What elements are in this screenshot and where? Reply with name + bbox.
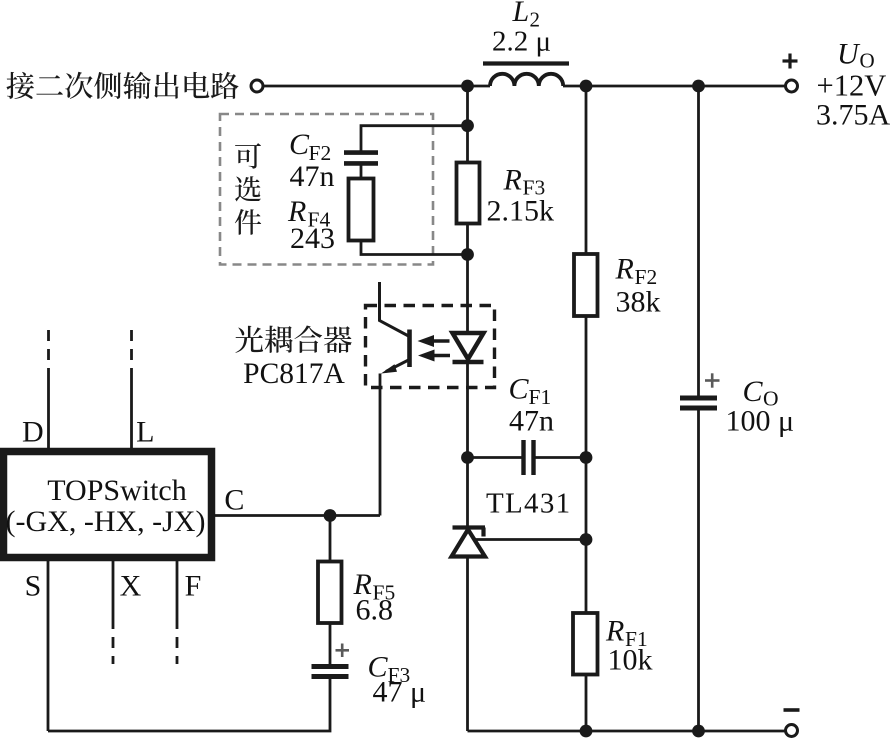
svg-text:2.2 μ: 2.2 μ <box>492 26 551 58</box>
label: 可 (optional box) <box>235 143 261 169</box>
pin L wire (dashed stub) <box>130 330 133 373</box>
svg-text:R: R <box>615 253 634 286</box>
svg-text:PC817A: PC817A <box>243 358 345 390</box>
regulator U2 TL431: triangle (pointing up) <box>452 530 486 557</box>
svg-text:243: 243 <box>290 222 335 255</box>
pin D wire (dashed stub) <box>47 330 50 373</box>
svg-text:3.75A: 3.75A <box>816 99 891 132</box>
node: junction CF1 / feedback column <box>461 451 474 464</box>
node: junction C pin / RF5 <box>324 509 337 522</box>
svg-text:2.15k: 2.15k <box>487 195 555 228</box>
wire: CF2 bottom plate to RF4 <box>360 165 363 179</box>
optocoupler U1 PC817A: dashed box <box>366 306 495 388</box>
terminal: secondary-side output (left, open circle) <box>251 80 263 92</box>
svg-text:100 μ: 100 μ <box>726 405 795 438</box>
wire: CO column, top rail down to CO <box>697 86 700 398</box>
label: minus sign <box>784 708 800 712</box>
wire: top rail from inductor to + terminal <box>563 85 785 88</box>
resistor RF4 (body) <box>349 179 374 241</box>
wire: LED cathode down to CF1 node <box>466 362 469 458</box>
wire: top rail from left terminal to inductor <box>264 85 490 88</box>
pin S wire down to bottom-left rail <box>47 561 50 731</box>
inductor L2 bar (line above coil) <box>483 61 569 65</box>
pin F wire (solid) <box>176 561 179 618</box>
node: junction top rail / RF2 column <box>580 80 593 93</box>
capacitor CO polarity + (gray) <box>705 373 720 387</box>
wire: CF2 top wire to feedback column <box>361 126 468 151</box>
optocoupler light arrow 2 <box>433 354 450 357</box>
resistor RF1 (body) <box>573 613 598 675</box>
pin D wire (solid) <box>47 373 50 448</box>
node: junction CF1 / RF2 column <box>580 451 593 464</box>
node: junction bottom rail / RF1 <box>580 725 593 738</box>
label: + polarity top right <box>783 54 798 69</box>
regulator U2 TL431: cathode bar <box>453 525 486 529</box>
capacitor CF1: left plate <box>521 440 525 475</box>
wire: bottom rail (TL431 anode to - terminal) <box>468 730 785 733</box>
optional-parts dashed box (gray) <box>220 114 433 265</box>
capacitor CF3: bottom plate <box>312 674 349 679</box>
wire: RF3 bottom to LED anode <box>466 224 469 335</box>
node: junction bottom rail / CO <box>692 725 705 738</box>
wire: RF5 bottom to CF3 <box>329 623 332 667</box>
svg-text:38k: 38k <box>616 286 661 319</box>
wire: TL431 reference to RF2/RF1 node <box>473 538 586 541</box>
wire: CF1 row right segment <box>535 456 586 459</box>
wire: CO bottom to bottom rail <box>697 408 700 731</box>
label: 选 (optional box) <box>235 176 261 201</box>
wire: RF1 bottom to bottom rail <box>585 675 588 732</box>
svg-text:C: C <box>743 375 764 408</box>
resistor RF5 (body) <box>318 562 342 624</box>
node: junction top rail / feedback column <box>461 80 474 93</box>
optocoupler phototransistor Q1: collector stub wire (free end above box) <box>380 282 409 336</box>
wire: RF4 bottom to feedback column <box>361 241 468 255</box>
optocoupler phototransistor Q1: emitter with arrowhead <box>386 360 409 372</box>
svg-text:TL431: TL431 <box>486 488 571 520</box>
node: junction CF2 top wire / feedback column <box>461 119 474 132</box>
capacitor CO: top plate (+) <box>680 396 717 401</box>
node: junction top rail / CO column <box>692 80 705 93</box>
resistor RF3 (body) <box>457 163 480 224</box>
svg-text:F: F <box>185 570 202 603</box>
pin X wire (solid) <box>112 561 115 618</box>
svg-text:47n: 47n <box>509 405 554 438</box>
wire: TL431 anode down to bottom rail <box>466 557 469 732</box>
svg-text:+12V: +12V <box>817 69 887 103</box>
svg-text:R: R <box>503 164 522 197</box>
svg-text:U: U <box>837 38 861 71</box>
optocoupler light arrow 1 <box>433 339 450 342</box>
capacitor CF1: right plate <box>531 440 535 475</box>
svg-text:(-GX, -HX, -JX): (-GX, -HX, -JX) <box>6 505 206 538</box>
pin L wire (solid) <box>130 373 133 448</box>
IC U3 TOPSwitch (thick box) <box>4 452 212 558</box>
capacitor CF3 polarity + (gray) <box>336 644 350 658</box>
svg-text:47n: 47n <box>290 160 335 193</box>
svg-text:L: L <box>136 416 154 449</box>
wire: RF2 bottom down to RF1 <box>585 316 588 614</box>
optocoupler LED D1: cathode bar <box>453 360 484 364</box>
svg-text:C: C <box>224 484 244 517</box>
wire: emitter down to C-pin rail <box>379 374 382 516</box>
label: 件 (optional box) <box>235 209 261 235</box>
pin F wire (dashed stub) <box>176 618 179 664</box>
svg-text:D: D <box>22 416 44 449</box>
label: 光耦合器 (optocoupler) <box>235 326 351 354</box>
label: 接二次侧输出电路 (to secondary-side output circuit) <box>6 72 238 99</box>
svg-text:C: C <box>289 128 310 161</box>
svg-text:L: L <box>512 0 530 28</box>
terminal: + output (right, open circle) <box>786 80 798 92</box>
regulator U2 TL431: cathode right-end tick <box>481 528 485 537</box>
svg-text:6.8: 6.8 <box>356 594 394 627</box>
capacitor CF2: bottom plate <box>344 161 378 166</box>
svg-text:TOPSwitch: TOPSwitch <box>47 474 186 507</box>
inductor L2 (three arcs) <box>490 74 563 86</box>
wire: feedback column, top rail down to RF3 <box>466 86 469 163</box>
terminal: - output (open circle) <box>786 725 798 737</box>
node: junction TL431 ref / RF2 column <box>580 533 593 546</box>
optocoupler LED D1: triangle (anode, pointing down) <box>453 333 484 359</box>
capacitor CF3: top plate (+) <box>312 664 349 669</box>
optocoupler phototransistor Q1: base bar <box>407 330 412 368</box>
capacitor CF2: top plate <box>344 150 378 155</box>
pin C wire to RF5 node <box>211 514 380 517</box>
wire: RF5 node down to RF5 <box>329 516 332 563</box>
wire: feedback column CF1 node down to TL431 cathode <box>466 458 469 530</box>
wire: CF1 row left segment <box>468 456 523 459</box>
svg-text:C: C <box>509 373 530 406</box>
wire: bottom-left rail (S to CF3) <box>48 677 330 731</box>
svg-text:X: X <box>120 570 142 603</box>
capacitor CO: bottom plate <box>680 406 717 411</box>
wire: RF2 column, top rail down to RF2 <box>585 86 588 255</box>
svg-text:10k: 10k <box>608 644 653 677</box>
svg-text:47 μ: 47 μ <box>373 676 427 709</box>
pin X wire (dashed stub) <box>112 618 115 664</box>
svg-text:S: S <box>25 570 42 603</box>
node: junction RF4 bottom wire / feedback column <box>461 248 474 261</box>
resistor RF2 (body) <box>574 254 598 316</box>
